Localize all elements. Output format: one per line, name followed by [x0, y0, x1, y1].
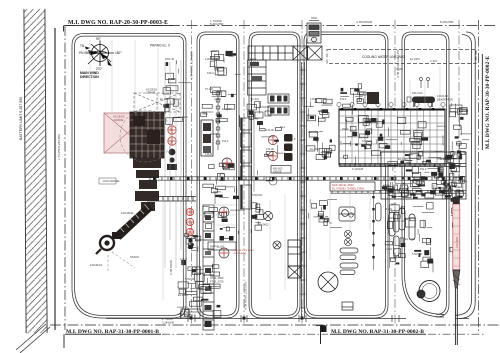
- road A centerline: [191, 20, 193, 326]
- lane 2 upper equipment: [210, 51, 241, 75]
- svg-text:140-B: 140-B: [180, 257, 187, 261]
- equipment row squares (top center): [248, 46, 293, 60]
- lane 5 tank circle: [417, 281, 440, 302]
- svg-text:FW-3: FW-3: [340, 97, 347, 101]
- lane 3 road-side boxes lower: [251, 203, 264, 233]
- scattered labels B: [310, 127, 448, 256]
- road C heavy lines with ticks: [301, 62, 306, 318]
- deaerator small stands: [419, 77, 462, 112]
- svg-text:EL.4500: EL.4500: [310, 147, 320, 151]
- svg-text:RAP-30: RAP-30: [395, 219, 405, 223]
- svg-text:C-301: C-301: [252, 97, 260, 101]
- svg-text:PN 0°: PN 0°: [79, 51, 88, 55]
- svg-text:4.7M ROAD 5,294,650: 4.7M ROAD 5,294,650: [190, 51, 194, 80]
- svg-text:CRANE: CRANE: [114, 118, 124, 122]
- east rack label box: [330, 182, 375, 191]
- bottom-right title: M.I. DWG NO. RAP-31-30-PP-0002-B: [330, 329, 426, 335]
- svg-text:170-06: 170-06: [266, 148, 274, 151]
- turbine building internals: [346, 115, 446, 162]
- access crane hatched pink area: [104, 113, 151, 153]
- battery limit hatched band: [20, 9, 51, 333]
- boiler area dense block: [381, 152, 466, 199]
- bottom-left title: M.I. DWG NO. RAP-31-30-PP-0001-B: [65, 317, 175, 335]
- lane 4 scattered mid: [306, 131, 335, 159]
- lane 3 crossed circle B: [273, 241, 281, 249]
- svg-text:140-B: 140-B: [205, 57, 212, 61]
- flare stack pink body: [453, 204, 460, 270]
- svg-text:V-108: V-108: [214, 97, 221, 101]
- right road centerline: [458, 20, 460, 200]
- svg-text:PAVING EL. 0: PAVING EL. 0: [150, 44, 170, 48]
- svg-text:140-SK01: 140-SK01: [455, 236, 459, 248]
- svg-text:BATTERY LIMIT 5,287,550: BATTERY LIMIT 5,287,550: [19, 97, 23, 140]
- svg-text:6.3M ROAD: 6.3M ROAD: [169, 260, 173, 275]
- lane 4 pump rows lower: [308, 199, 341, 227]
- central label box: [271, 166, 291, 174]
- lane 3 crossed circle: [263, 211, 272, 220]
- lane 2 lower equipment: [203, 163, 239, 204]
- svg-text:V-108: V-108: [396, 67, 403, 71]
- top match line start stem: [63, 26, 65, 32]
- svg-text:CENTER-2: CENTER-2: [183, 314, 197, 318]
- crusher house dark block: [130, 112, 164, 158]
- svg-text:DIRECTION: DIRECTION: [80, 75, 99, 79]
- svg-text:RAP-30: RAP-30: [165, 57, 175, 61]
- lane 3 road-side boxes: [247, 97, 260, 119]
- road A black tick marks: [189, 239, 193, 249]
- svg-text:5.5M RD: 5.5M RD: [412, 252, 422, 256]
- svg-text:5.5M RD: 5.5M RD: [362, 139, 372, 143]
- right column vertical vessels: [389, 208, 415, 240]
- gas turbine unit: [339, 207, 355, 221]
- lane 3 top small boxes: [255, 111, 271, 125]
- lane 4 upper pumps: [303, 99, 332, 127]
- baseline dash-dot extensions: [162, 333, 486, 335]
- turbine building west dense: [341, 116, 372, 165]
- top title: M.I. DWG NO. RAP-20-30-PP-0003-E: [66, 20, 173, 26]
- svg-text:EL.4500: EL.4500: [318, 109, 328, 113]
- svg-text:FW-3: FW-3: [420, 167, 427, 171]
- svg-text:RAP-BLDG: RAP-BLDG: [210, 245, 224, 249]
- svg-text:EL.4500: EL.4500: [178, 293, 188, 297]
- bottom tick mark with stem: [316, 326, 325, 345]
- svg-text:5.5M RD: 5.5M RD: [185, 277, 195, 281]
- bottom road crossing ticks: [188, 315, 399, 322]
- svg-text:EL.1500: EL.1500: [160, 97, 170, 101]
- svg-text:C-301: C-301: [385, 247, 393, 251]
- main E-W pipe rack: [148, 177, 466, 180]
- mid-left construction lines: [165, 60, 181, 268]
- lane 2 AT EL labels: [210, 276, 224, 284]
- central scattered labels: [253, 61, 296, 151]
- svg-text:EL.1500: EL.1500: [222, 107, 232, 111]
- lane 3 west strip of stacked units: [241, 118, 252, 209]
- svg-text:P-102A/B: P-102A/B: [352, 167, 363, 171]
- central scattered small items: [257, 124, 285, 181]
- deaerator labels: [412, 91, 453, 102]
- stack cone: [453, 270, 460, 288]
- svg-text:4.7M ROAD 5,281,350: 4.7M ROAD 5,281,350: [244, 281, 248, 310]
- north arrow compass: [86, 41, 114, 67]
- central fire monitor circles (red cross): [268, 135, 277, 185]
- top match line (dash-dot): [64, 25, 497, 27]
- lane 5 road outline (double line): [402, 32, 449, 317]
- main wind direction label: [80, 71, 99, 79]
- turbine building column bubbles: [337, 102, 445, 109]
- svg-text:RAP-182 EL.4550: RAP-182 EL.4550: [332, 183, 354, 187]
- lane 2 pump cluster: [185, 234, 203, 252]
- scattered labels A: [205, 87, 347, 197]
- transfer tower below crusher: [133, 158, 161, 211]
- lane 4 road outline (double line): [304, 32, 388, 318]
- left road centerline (dash-dot): [64, 26, 66, 330]
- operation center label box: [181, 309, 200, 318]
- svg-text:34-A: 34-A: [253, 61, 259, 64]
- svg-text:EL.4750(E) 7140(E) 13400: EL.4750(E) 7140(E) 13400: [332, 187, 365, 191]
- boiler bottom strip: [384, 183, 464, 202]
- lane 3 pump skid B: [268, 106, 289, 115]
- lane 2 road outline (double line): [197, 32, 239, 318]
- svg-text:L 74 650 5,284,000: L 74 650 5,284,000: [57, 134, 61, 160]
- bottom road black marks: [190, 317, 304, 320]
- svg-text:4,7M ROAD: 4,7M ROAD: [356, 20, 373, 24]
- right border strip lower: [449, 171, 457, 255]
- svg-text:OPERATION: OPERATION: [183, 310, 198, 314]
- svg-text:DEAERATOR: DEAERATOR: [437, 98, 453, 102]
- svg-text:C-301: C-301: [430, 59, 438, 63]
- left title stem tick: [63, 334, 65, 348]
- svg-text:180°: 180°: [115, 51, 122, 55]
- svg-text:150-V-03: 150-V-03: [412, 91, 423, 95]
- svg-text:140-D-02: 140-D-02: [437, 94, 448, 98]
- secondary rack west: [147, 197, 196, 202]
- svg-text:C-301: C-301: [168, 77, 176, 81]
- svg-text:5,294,650: 5,294,650: [210, 22, 224, 26]
- svg-text:EL.1500: EL.1500: [398, 157, 408, 161]
- svg-text:FW-3: FW-3: [222, 139, 229, 143]
- road D centerline: [394, 20, 396, 326]
- top dimension texts: [210, 19, 454, 26]
- svg-text:STACK: STACK: [130, 255, 139, 259]
- central pump trio (dark): [284, 134, 293, 161]
- lane 3 internal column line: [253, 112, 255, 192]
- lane 2 south vertical strip: [203, 205, 214, 330]
- svg-text:5.5M RD: 5.5M RD: [260, 105, 270, 109]
- building south heavy line: [339, 164, 466, 167]
- battery limit bottom tail: [16, 324, 50, 353]
- svg-text:EL.1500: EL.1500: [410, 57, 420, 61]
- lane 3 north building strip: [248, 60, 267, 95]
- lane 3 lower tower: [288, 240, 301, 278]
- right border strip equipment: [450, 103, 472, 156]
- svg-text:5,294,650: 5,294,650: [440, 20, 454, 24]
- vertical vessels lane 4: [376, 203, 400, 256]
- road B centerline: [243, 20, 245, 326]
- svg-text:PT.EL.2750: PT.EL.2750: [210, 280, 224, 284]
- lane 2 black square pair: [220, 236, 234, 241]
- lane 2 mid labels: [201, 87, 240, 127]
- lane 3 road outline (double line): [249, 32, 300, 318]
- svg-text:AUX.CRANE: AUX.CRANE: [103, 179, 119, 183]
- bottom road edge line: [106, 318, 469, 320]
- lane 2 tick chain column: [216, 90, 220, 150]
- mid-left dark valves: [167, 149, 177, 170]
- mid-left fire monitors (red): [168, 126, 176, 145]
- small tower above match line: [307, 18, 321, 43]
- right column equipment: [385, 203, 434, 273]
- road A fire monitors (red): [186, 208, 193, 235]
- svg-text:EL.7140: EL.7140: [178, 115, 188, 119]
- lane 3 pump skid A: [268, 94, 289, 103]
- road C centerline: [301, 20, 303, 326]
- svg-text:TN: TN: [80, 44, 85, 48]
- stack tail lines: [455, 288, 457, 345]
- svg-text:RAP-30 PIPE RACK: RAP-30 PIPE RACK: [234, 249, 254, 252]
- svg-text:EL 8,000(W): EL 8,000(W): [234, 253, 246, 255]
- crossed squares over road C: [293, 46, 322, 60]
- svg-text:M-201: M-201: [385, 207, 393, 211]
- svg-text:M-201: M-201: [440, 157, 448, 161]
- construction grid lines: [90, 40, 440, 310]
- stack top cap: [453, 197, 460, 204]
- horizontal vessels lane 4: [340, 248, 358, 275]
- svg-text:M.I. DWG NO. RAP-30-30-PP-0002: M.I. DWG NO. RAP-30-30-PP-0002-E: [485, 56, 491, 149]
- svg-text:AT EL.2500: AT EL.2500: [210, 276, 224, 280]
- crossed small circles: [344, 230, 351, 245]
- boiler area internals: [382, 154, 464, 198]
- bottom-right black marker box: [320, 326, 327, 333]
- lane 4 pump cluster top: [340, 84, 366, 115]
- lane 2 vessel circles with red cross: [219, 158, 232, 258]
- svg-text:4.7M ROAD 5,294,650: 4.7M ROAD 5,294,650: [396, 49, 400, 78]
- cooling water line dashed corridor: [327, 50, 476, 64]
- lane 4 internal column lines: [372, 190, 389, 270]
- bottom match line (dash-dot): [50, 324, 500, 326]
- lane 2 building label box: [208, 242, 236, 250]
- svg-text:FW-3: FW-3: [342, 127, 349, 131]
- deaerator vessel (dark horizontal): [407, 97, 435, 108]
- dashed crane circle around crusher: [120, 110, 172, 162]
- rack label (red): [234, 249, 254, 255]
- svg-text:GAUGE: GAUGE: [273, 170, 282, 173]
- right title underline: [481, 54, 483, 150]
- svg-text:120-ML01: 120-ML01: [121, 211, 134, 215]
- east rack line: [330, 190, 466, 193]
- svg-text:140-B: 140-B: [310, 97, 317, 101]
- boiler right dark: [436, 154, 467, 198]
- svg-text:170-06: 170-06: [266, 129, 274, 132]
- lane 1 road outline (double line): [72, 34, 186, 319]
- svg-text:90°: 90°: [96, 37, 102, 41]
- svg-text:120-RL01: 120-RL01: [90, 263, 103, 267]
- svg-text:FW-3: FW-3: [250, 57, 257, 61]
- dashed access-crane X box: [134, 93, 180, 112]
- scattered labels C: [160, 57, 438, 297]
- reclaimer area dashes: [108, 252, 135, 273]
- reclaimer wheel: [96, 232, 120, 254]
- lane 4 mid tanks: [318, 272, 338, 292]
- svg-text:EL.7140: EL.7140: [405, 237, 415, 241]
- svg-text:5.5M RD: 5.5M RD: [252, 193, 262, 197]
- svg-text:140-B: 140-B: [205, 152, 212, 156]
- lane 4 dark unit above building: [367, 92, 379, 104]
- mid-left equipment strip: [163, 60, 191, 124]
- left road edge line (double): [54, 28, 55, 330]
- operation center area cluster: [177, 260, 221, 319]
- svg-text:M-201: M-201: [210, 132, 218, 136]
- right match border lines: [455, 20, 479, 332]
- svg-text:TK-101: TK-101: [205, 87, 214, 91]
- lane 2 below rack: [203, 207, 244, 235]
- inclined conveyor: [114, 203, 152, 239]
- lane 2 tall handling unit: [201, 120, 213, 156]
- turbine building outline: [339, 108, 445, 165]
- svg-text:CRANE: CRANE: [146, 91, 156, 95]
- svg-text:100-A: 100-A: [207, 71, 214, 75]
- conveyor leader labels: [90, 179, 139, 267]
- lane 5 laptop box: [342, 302, 353, 310]
